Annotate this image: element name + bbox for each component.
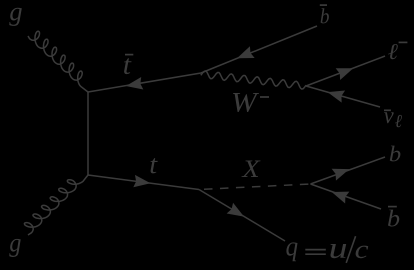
arrow on antineutrino (points toward vertex) (328, 91, 346, 103)
label b of bbar (top) (321, 8, 329, 23)
label t (151, 158, 158, 173)
arrow on b (points outward) (332, 169, 350, 181)
lepton l- line (306, 56, 385, 86)
overbar of bbar label (top) (320, 4, 327, 6)
arrow on bbar (points toward vertex) (237, 46, 255, 58)
label u of q=u/c (331, 244, 347, 258)
arrow on bbar (points toward vertex) (332, 192, 350, 204)
W- boson wavy line (201, 71, 306, 89)
label b of bbar (right lower) (388, 210, 399, 227)
bbar quark line (lower right of X) (311, 184, 382, 209)
equals sign of q = u/c (305, 249, 326, 251)
superscript minus of l- (399, 41, 408, 43)
label g (bottom incoming gluon) (9, 239, 20, 257)
label l of l- (388, 44, 398, 59)
label q of q=u/c (286, 242, 297, 261)
arrow on q (points outward) (227, 203, 244, 217)
arrow on t (points right) (133, 175, 150, 187)
label b (right upper) (390, 146, 401, 162)
quark exchange line (vertical) (87, 92, 89, 175)
arrow on l- (points outward) (336, 68, 354, 80)
label W of W- (233, 93, 259, 112)
anti-top propagator tbar (88, 73, 201, 92)
slash of u/c (346, 236, 355, 263)
gluon line g (bottom incoming) (24, 175, 88, 235)
label nu of antineutrino (384, 112, 394, 123)
bbar line to top right (201, 26, 317, 73)
label c of q=u/c (356, 246, 369, 259)
label g (top incoming gluon) (9, 8, 21, 26)
overbar of antineutrino label (384, 109, 391, 111)
light quark q line (199, 190, 285, 242)
label X (242, 161, 261, 178)
label tbar (124, 58, 132, 74)
overbar of bbar label (right) (388, 206, 397, 208)
arrow on tbar (points toward vertex) (126, 77, 143, 89)
overbar of tbar label (125, 54, 133, 56)
X boson dashed line (199, 184, 311, 190)
b quark line (upper right of X) (311, 157, 386, 184)
gluon line g (top incoming) (28, 31, 88, 92)
label subscript l of antineutrino (395, 115, 402, 127)
top quark propagator t (88, 175, 199, 190)
antineutrino line (306, 86, 380, 107)
superscript minus of W- (260, 96, 269, 98)
